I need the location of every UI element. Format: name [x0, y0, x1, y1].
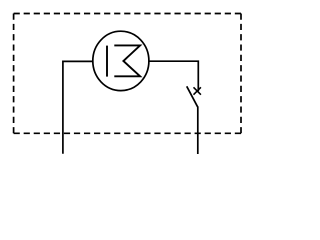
motor M1 (circle outline) — [93, 31, 149, 90]
switch S1: movable blade (open) — [187, 86, 198, 107]
wire: right lead from motor to switch top contact — [149, 61, 199, 91]
motor M1 glyph: letter M (rotated 90°) — [114, 45, 140, 76]
enclosure boundary (dashed appliance outline) — [14, 14, 241, 134]
wire: from switch bottom contact down to terminal — [197, 106, 199, 154]
switch S1: contact cross mark — [194, 87, 201, 94]
motor M1 glyph: tilde bar (rotated) — [106, 46, 108, 77]
wire: left lead from motor, horizontal then down to terminal — [63, 61, 93, 153]
